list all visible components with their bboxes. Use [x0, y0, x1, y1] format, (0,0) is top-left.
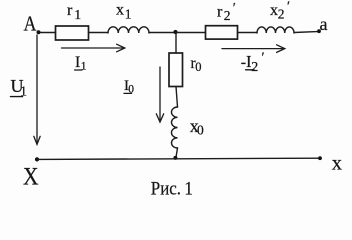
- wire: [176, 87, 178, 108]
- wire: [89, 32, 109, 34]
- inductor x1: [108, 2, 149, 33]
- svg-text:′: ′: [262, 51, 265, 66]
- wire: [176, 148, 178, 159]
- svg-text:2: 2: [278, 7, 285, 22]
- svg-text:1: 1: [125, 6, 132, 21]
- svg-text:2: 2: [224, 8, 231, 23]
- wire: [176, 32, 206, 34]
- node a: [317, 14, 327, 34]
- node A: [24, 12, 41, 36]
- current arrow -I2': [222, 45, 285, 53]
- svg-text:x: x: [332, 152, 342, 174]
- svg-text:a: a: [320, 14, 328, 34]
- resistor r0: [169, 53, 202, 87]
- svg-text:2: 2: [251, 60, 258, 75]
- svg-text:A: A: [24, 12, 37, 36]
- inductor x0: [171, 107, 204, 148]
- current arrow I1: [62, 44, 125, 52]
- wire: [175, 33, 177, 54]
- svg-text:x: x: [270, 2, 278, 19]
- svg-text:r: r: [67, 2, 73, 19]
- svg-text:r: r: [217, 3, 223, 20]
- svg-text:Рис. 1: Рис. 1: [151, 179, 193, 200]
- wire: [238, 32, 258, 34]
- svg-text:I: I: [75, 54, 80, 71]
- wire: [41, 32, 56, 34]
- bottom junction node: [173, 156, 177, 160]
- wire bottom rail: [37, 158, 320, 159]
- svg-text:x: x: [116, 2, 124, 19]
- inductor x2': [257, 0, 294, 33]
- label I0: [124, 78, 134, 96]
- svg-text:0: 0: [197, 122, 204, 137]
- label -I2': [241, 51, 265, 76]
- svg-text:0: 0: [195, 60, 201, 74]
- label U1: [11, 76, 28, 100]
- resistor r1: [56, 2, 89, 40]
- resistor r2': [206, 1, 238, 39]
- svg-text:′: ′: [287, 0, 290, 15]
- wire: [294, 31, 317, 34]
- node x: [318, 152, 342, 174]
- junction node: [173, 30, 177, 34]
- svg-text:1: 1: [74, 7, 81, 22]
- label I1: [75, 54, 87, 72]
- voltage arrow U1: [34, 35, 40, 144]
- current arrow I0: [156, 67, 163, 122]
- wire: [149, 32, 176, 34]
- node X: [23, 157, 39, 190]
- svg-text:′: ′: [233, 1, 236, 16]
- svg-text:X: X: [23, 164, 39, 191]
